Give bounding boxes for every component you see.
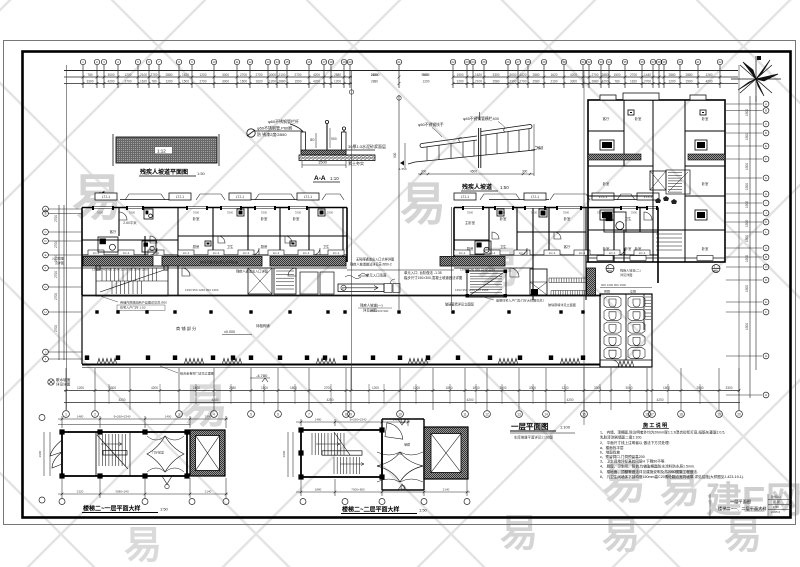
- svg-text:LC-1: LC-1: [489, 251, 496, 255]
- svg-text:C: C: [765, 265, 767, 269]
- svg-text:7000+800: 7000+800: [351, 488, 365, 492]
- svg-text:2.60平米: 2.60平米: [123, 220, 137, 225]
- svg-text:1:50: 1:50: [419, 508, 428, 513]
- svg-text:D: D: [765, 131, 767, 135]
- svg-text:780: 780: [151, 80, 157, 84]
- svg-text:J950: J950: [607, 269, 613, 273]
- svg-text:14100: 14100: [371, 73, 380, 77]
- svg-text:LTJ-1: LTJ-1: [304, 195, 313, 199]
- svg-text:780: 780: [614, 80, 620, 84]
- svg-text:残疾人坡道(一): 残疾人坡道(一): [360, 303, 383, 308]
- balcony front lines: [120, 199, 658, 201]
- svg-text:K: K: [765, 220, 767, 224]
- window marks top wall: [92, 206, 658, 210]
- svg-text:2880: 2880: [278, 80, 285, 84]
- svg-text:3300: 3300: [563, 211, 570, 215]
- slope note: [48, 379, 54, 385]
- svg-text:1880: 1880: [315, 488, 322, 492]
- svg-text:车库坡道平面详见1:100图: 车库坡道平面详见1:100图: [514, 435, 554, 440]
- svg-text:G: G: [44, 285, 46, 289]
- svg-text:按规范要求设置无障碍设施: 按规范要求设置无障碍设施: [200, 260, 239, 265]
- stair detail 2 treads: [312, 432, 364, 474]
- svg-text:男厕: 男厕: [604, 289, 610, 294]
- svg-text:-1.35: -1.35: [396, 452, 403, 456]
- window tick strip: [549, 278, 586, 295]
- svg-text:2900: 2900: [282, 450, 286, 457]
- corridor door fans: [182, 268, 519, 277]
- svg-text:铝合金卷帘门详见立面图: 铝合金卷帘门详见立面图: [180, 371, 214, 376]
- svg-text:24: 24: [471, 60, 475, 64]
- svg-text:1900: 1900: [205, 415, 212, 419]
- toilet entry: [612, 360, 634, 367]
- svg-text:1500: 1500: [745, 235, 749, 242]
- hatched walkway bands: [83, 257, 596, 297]
- svg-text:±0.000: ±0.000: [224, 330, 235, 334]
- svg-text:4200: 4200: [118, 398, 125, 402]
- svg-text:1800: 1800: [290, 386, 297, 390]
- svg-text:33: 33: [599, 60, 603, 64]
- svg-text:1500: 1500: [240, 80, 247, 84]
- svg-text:LC-1: LC-1: [183, 251, 190, 255]
- door arcs: [119, 212, 652, 255]
- svg-text:1:10: 1:10: [330, 176, 339, 181]
- svg-text:LC-1: LC-1: [243, 251, 250, 255]
- svg-text:E: E: [765, 300, 767, 304]
- svg-text:C: C: [765, 122, 767, 126]
- svg-text:2140: 2140: [205, 490, 212, 494]
- svg-text:卧室: 卧室: [635, 246, 642, 251]
- svg-text:φ50不锈钢扶手: φ50不锈钢扶手: [418, 122, 444, 127]
- svg-text:1500: 1500: [456, 73, 463, 77]
- svg-text:3300: 3300: [570, 80, 577, 84]
- svg-text:卧室: 卧室: [635, 116, 642, 121]
- svg-text:1:50: 1:50: [197, 171, 206, 176]
- svg-text:无障碍通道出入口大样详图: 无障碍通道出入口大样详图: [356, 257, 394, 262]
- svg-text:D: D: [44, 239, 46, 243]
- svg-text:6: 6: [277, 412, 279, 416]
- svg-text:1620: 1620: [519, 73, 526, 77]
- svg-text:首层住宅入户门及门厅大样图见苏J: 首层住宅入户门及门厅大样图见苏J: [496, 298, 544, 303]
- corridor lines: [82, 268, 601, 296]
- svg-text:1480: 1480: [77, 415, 84, 419]
- svg-text:1200: 1200: [561, 386, 568, 390]
- svg-text:4200: 4200: [326, 398, 333, 402]
- svg-text:5: 5: [250, 412, 252, 416]
- svg-text:卧室: 卧室: [625, 246, 632, 251]
- svg-text:卧室: 卧室: [702, 246, 709, 251]
- shutter door symbols: [97, 359, 580, 366]
- svg-text:3000: 3000: [269, 73, 276, 77]
- svg-text:4200: 4200: [151, 386, 158, 390]
- svg-text:2700: 2700: [124, 80, 131, 84]
- svg-text:1400: 1400: [165, 415, 172, 419]
- svg-text:F: F: [765, 310, 767, 314]
- interior walls right unit: [454, 208, 658, 301]
- svg-text:1500: 1500: [745, 255, 749, 262]
- middle entrance ramp: [338, 270, 454, 292]
- svg-text:10: 10: [212, 60, 216, 64]
- svg-text:LTJ-1: LTJ-1: [102, 195, 111, 199]
- svg-text:1200: 1200: [413, 386, 420, 390]
- svg-text:3300: 3300: [295, 211, 302, 215]
- svg-text:1500: 1500: [745, 323, 749, 330]
- svg-text:19: 19: [717, 412, 721, 416]
- svg-text:4200: 4200: [466, 398, 473, 402]
- svg-text:-4.780: -4.780: [256, 373, 268, 378]
- svg-text:B: B: [765, 255, 767, 259]
- svg-text:6、 凡卫生间墙体下部均做150mm高C20素砼翻边宽同墙厚: 6、 凡卫生间墙体下部均做150mm高C20素砼翻边宽同墙厚,详见结施(大样图见…: [600, 474, 744, 479]
- svg-text:F: F: [765, 157, 767, 161]
- svg-text:3300: 3300: [129, 211, 136, 215]
- svg-text:残疾人坡道: 残疾人坡道: [462, 183, 492, 191]
- svg-text:G: G: [765, 176, 767, 180]
- svg-text:2880: 2880: [668, 73, 675, 77]
- svg-text:1800: 1800: [445, 386, 452, 390]
- balcony label boxes: [95, 193, 659, 200]
- svg-text:9×260=2340: 9×260=2340: [350, 418, 367, 422]
- svg-text:2700: 2700: [591, 73, 598, 77]
- svg-text:客厅: 客厅: [603, 116, 610, 121]
- svg-text:2700: 2700: [255, 73, 262, 77]
- svg-text:1500: 1500: [745, 220, 749, 227]
- svg-text:踏步尺寸150×300,混凝土坡道做法详图: 踏步尺寸150×300,混凝土坡道做法详图: [404, 275, 463, 280]
- svg-text:3300: 3300: [492, 73, 499, 77]
- svg-text:3080+240: 3080+240: [115, 490, 129, 494]
- svg-text:LC-1: LC-1: [213, 251, 220, 255]
- toilet block: [600, 294, 652, 367]
- svg-text:36: 36: [640, 60, 644, 64]
- main grid line: [64, 70, 738, 72]
- svg-text:1:12: 1:12: [157, 148, 166, 153]
- svg-text:2880: 2880: [601, 73, 608, 77]
- svg-text:3300: 3300: [725, 386, 732, 390]
- svg-text:女厕: 女厕: [630, 289, 636, 294]
- svg-text:900 1200 900 1500: 900 1200 900 1500: [601, 283, 626, 287]
- drawing thick border: [23, 52, 791, 518]
- hall columns row lower (pilasters): [85, 355, 585, 360]
- svg-text:卧室: 卧室: [293, 216, 300, 221]
- svg-text:楼梯二~一、二层平面大样: 楼梯二~一、二层平面大样: [718, 505, 767, 512]
- bottom dimension lines: [64, 391, 740, 403]
- svg-text:1620: 1620: [475, 73, 482, 77]
- svg-text:LC-1: LC-1: [333, 251, 340, 255]
- svg-text:2880: 2880: [334, 73, 341, 77]
- svg-text:建施2-c: 建施2-c: [771, 494, 782, 499]
- svg-text:LC-1: LC-1: [609, 251, 616, 255]
- svg-text:2880: 2880: [532, 73, 539, 77]
- leader notes: [52, 256, 641, 376]
- top dimension numbers: [86, 73, 712, 84]
- svg-text:1500: 1500: [613, 73, 620, 77]
- svg-text:300: 300: [522, 170, 528, 174]
- svg-text:LTJ-1: LTJ-1: [461, 195, 470, 199]
- svg-text:E: E: [45, 253, 47, 257]
- svg-text:900: 900: [393, 152, 397, 158]
- svg-text:H: H: [765, 393, 767, 397]
- svg-text:客厅: 客厅: [110, 229, 117, 234]
- svg-text:客厅: 客厅: [564, 244, 571, 249]
- svg-text:卫生: 卫生: [323, 244, 330, 249]
- svg-text:E: E: [765, 144, 767, 148]
- svg-text:卧室: 卧室: [603, 181, 610, 186]
- svg-text:2700: 2700: [294, 73, 301, 77]
- svg-text:1500: 1500: [745, 285, 749, 292]
- svg-text:F: F: [45, 266, 47, 270]
- svg-text:3: 3: [178, 412, 180, 416]
- wing window line: [588, 257, 725, 259]
- svg-text:1393 950 1260 950 1393: 1393 950 1260 950 1393: [185, 288, 219, 292]
- svg-text:2700: 2700: [324, 386, 331, 390]
- svg-text:φ60不锈钢管栏杆: φ60不锈钢管栏杆: [268, 118, 299, 124]
- svg-text:2580: 2580: [492, 80, 499, 84]
- svg-text:4200: 4200: [705, 80, 712, 84]
- elevation flag left of building: [100, 192, 104, 201]
- title block: [718, 499, 767, 512]
- svg-text:1620: 1620: [630, 80, 637, 84]
- svg-text:4: 4: [213, 412, 215, 416]
- svg-text:16: 16: [307, 60, 311, 64]
- svg-text:2700: 2700: [54, 241, 58, 248]
- toilet stalls: [604, 297, 645, 359]
- svg-text:1200: 1200: [334, 80, 341, 84]
- svg-text:3300: 3300: [631, 211, 638, 215]
- door/fixture blobs: [96, 209, 626, 270]
- svg-text:楼梯二~一层平面大样: 楼梯二~一层平面大样: [83, 505, 141, 513]
- dim lines: [64, 76, 352, 78]
- detail 1 axis bubbles: [59, 499, 65, 505]
- svg-text:1200: 1200: [269, 80, 276, 84]
- svg-text:残疾人坡道平面图: 残疾人坡道平面图: [140, 168, 188, 176]
- svg-text:厨房: 厨房: [467, 246, 474, 251]
- entrance shrubs: [655, 196, 677, 204]
- svg-text:42: 42: [718, 60, 722, 64]
- stair detail 1 bottom dims: [44, 432, 228, 498]
- svg-text:商 铺 部 分: 商 铺 部 分: [176, 325, 197, 332]
- svg-text:2、 平面尺寸线上注明者以 做法下方式处理:: 2、 平面尺寸线上注明者以 做法下方式处理:: [600, 440, 670, 445]
- detail 1 star door: [147, 436, 184, 472]
- svg-text:2140: 2140: [443, 488, 450, 492]
- svg-text:LC-1: LC-1: [639, 251, 646, 255]
- svg-text:卧室: 卧室: [702, 116, 709, 121]
- svg-text:1400: 1400: [400, 488, 407, 492]
- svg-text:卧室: 卧室: [564, 216, 571, 221]
- svg-text:b、地面找坡: b、地面找坡: [600, 450, 620, 455]
- svg-text:卧室: 卧室: [261, 216, 268, 221]
- svg-text:A: A: [765, 246, 767, 250]
- svg-text:残疾人坡道做法详见苏J950-2: 残疾人坡道做法详见苏J950-2: [350, 262, 392, 267]
- svg-text:1200: 1200: [668, 80, 675, 84]
- wing room labels: [603, 116, 709, 251]
- svg-text:28: 28: [526, 60, 530, 64]
- svg-text:300: 300: [421, 170, 427, 174]
- svg-text:12: 12: [485, 412, 489, 416]
- svg-text:厨房: 厨房: [261, 244, 268, 249]
- detail 2 star door: [377, 452, 423, 482]
- svg-text:2900: 2900: [38, 450, 42, 457]
- svg-text:B: B: [765, 109, 767, 113]
- svg-text:2700: 2700: [644, 80, 651, 84]
- svg-text:1500: 1500: [685, 80, 692, 84]
- svg-text:H: H: [44, 310, 46, 314]
- svg-text:c、预留洞口,门洞预留高200: c、预留洞口,门洞预留高200: [600, 454, 645, 459]
- svg-text:14: 14: [544, 412, 548, 416]
- svg-text:2100: 2100: [475, 80, 482, 84]
- svg-text:1:100: 1:100: [560, 425, 571, 430]
- svg-text:15: 15: [582, 412, 586, 416]
- svg-text:20: 20: [348, 60, 352, 64]
- room labels: [110, 216, 632, 251]
- svg-text:12: 12: [248, 60, 252, 64]
- wing outer walls: [588, 100, 725, 262]
- wing interior: [588, 100, 725, 262]
- stair detail 2 box: [301, 430, 382, 477]
- svg-text:1260 2240 950 2240 1260: 1260 2240 950 2240 1260: [460, 268, 495, 272]
- elevator shaft narrow: [530, 269, 547, 295]
- svg-text:C: C: [44, 230, 46, 234]
- svg-text:9: 9: [350, 412, 352, 416]
- svg-text:50: 50: [310, 137, 315, 142]
- svg-text:4200: 4200: [211, 398, 218, 402]
- svg-text:a、楼面找平层: a、楼面找平层: [600, 445, 624, 450]
- detail 2 top door fan: [385, 423, 405, 439]
- svg-text:2100: 2100: [278, 73, 285, 77]
- svg-text:5、 楼地面、顶棚等做法详见建施说明及苏J950图集工程做法: 5、 楼地面、顶棚等做法详见建施说明及苏J950图集工程做法.: [600, 469, 698, 474]
- svg-text:2880: 2880: [685, 73, 692, 77]
- svg-text:2580: 2580: [229, 386, 236, 390]
- svg-text:4500: 4500: [470, 170, 477, 174]
- svg-text:10: 10: [398, 412, 402, 416]
- svg-text:13: 13: [517, 412, 521, 416]
- svg-text:1440: 1440: [644, 73, 651, 77]
- svg-text:1500: 1500: [182, 80, 189, 84]
- svg-text:防 锈漆2度GB50: 防 锈漆2度GB50: [257, 131, 287, 137]
- svg-text:楼梯二~二层平面大样: 楼梯二~二层平面大样: [342, 506, 400, 514]
- svg-text:J950: J950: [713, 269, 719, 273]
- svg-text:13: 13: [266, 60, 270, 64]
- svg-text:LC-1: LC-1: [549, 251, 556, 255]
- svg-text:7: 7: [308, 412, 310, 416]
- svg-text:2580: 2580: [696, 386, 703, 390]
- svg-text:3300: 3300: [327, 211, 334, 215]
- svg-text:2700: 2700: [240, 73, 247, 77]
- wing entrance steps: [656, 234, 682, 250]
- svg-text:1500: 1500: [745, 163, 749, 170]
- svg-text:8: 8: [345, 412, 347, 416]
- svg-text:30: 30: [562, 60, 566, 64]
- svg-text:31: 31: [581, 60, 585, 64]
- balcony rail lines: [125, 194, 635, 200]
- svg-text:3300: 3300: [97, 211, 104, 215]
- svg-text:4200: 4200: [313, 80, 320, 84]
- interior walls left unit: [82, 208, 347, 296]
- service rooms with X: [248, 268, 272, 294]
- elevator shaft 1: [190, 430, 225, 476]
- detail ref circles: [606, 265, 614, 273]
- svg-text:2700: 2700: [519, 80, 526, 84]
- svg-text:2100: 2100: [550, 80, 557, 84]
- svg-text:3000: 3000: [509, 73, 516, 77]
- svg-text:1620: 1620: [255, 80, 262, 84]
- svg-text:1200: 1200: [199, 73, 206, 77]
- svg-text:单元入口雨蓬: 单元入口雨蓬: [366, 273, 387, 278]
- wing stair: [666, 170, 690, 194]
- svg-text:18: 18: [329, 60, 333, 64]
- svg-text:3300: 3300: [594, 386, 601, 390]
- svg-text:3300: 3300: [529, 386, 536, 390]
- svg-text:9×260=2340: 9×260=2340: [114, 415, 131, 419]
- svg-text:1393 950 1260 950 1393: 1393 950 1260 950 1393: [455, 288, 489, 292]
- svg-text:3300: 3300: [109, 386, 116, 390]
- svg-text:住宅入户门厅 1:50: 住宅入户门厅 1:50: [120, 305, 146, 310]
- svg-text:2: 2: [94, 412, 96, 416]
- svg-text:3300: 3300: [261, 211, 268, 215]
- stair detail 1 treads: [96, 432, 130, 476]
- svg-text:37: 37: [651, 60, 655, 64]
- svg-text:LC-1: LC-1: [579, 251, 586, 255]
- stairwell right: [467, 271, 506, 297]
- svg-text:3300: 3300: [467, 211, 474, 215]
- svg-text:详见详图: 详见详图: [620, 272, 632, 277]
- svg-text:2700: 2700: [199, 80, 206, 84]
- svg-text:LTJ-1: LTJ-1: [176, 195, 185, 199]
- svg-text:1:50: 1:50: [160, 507, 169, 512]
- elevation mark: [250, 378, 270, 382]
- detail 2 corridor column: [382, 419, 424, 490]
- svg-text:30厚1:3水泥砂浆面层: 30厚1:3水泥砂浆面层: [348, 143, 386, 149]
- svg-text:32: 32: [587, 60, 591, 64]
- svg-text:2005.6: 2005.6: [771, 510, 781, 514]
- svg-text:一层平面图: 一层平面图: [511, 422, 549, 431]
- svg-text:3000: 3000: [625, 386, 632, 390]
- svg-text:2880: 2880: [165, 73, 172, 77]
- svg-text:乳胶漆涂刷墙面二度1:100.: 乳胶漆涂刷墙面二度1:100.: [600, 435, 642, 440]
- svg-text:20: 20: [737, 412, 741, 416]
- svg-text:卧室: 卧室: [193, 216, 200, 221]
- svg-text:4200: 4200: [656, 398, 663, 402]
- svg-text:38: 38: [657, 60, 661, 64]
- svg-text:11: 11: [235, 60, 238, 64]
- svg-text:易: 易: [724, 515, 762, 557]
- svg-text:玻璃幕墙详见立面图: 玻璃幕墙详见立面图: [548, 302, 576, 307]
- svg-text:17: 17: [322, 60, 326, 64]
- svg-text:19: 19: [342, 60, 346, 64]
- svg-text:φ50不锈钢管,P60刷: φ50不锈钢管,P60刷: [257, 125, 292, 131]
- svg-text:门厅前室: 门厅前室: [152, 450, 164, 455]
- svg-text:1500: 1500: [745, 133, 749, 140]
- svg-text:1500: 1500: [261, 386, 268, 390]
- svg-text:1200: 1200: [422, 80, 429, 84]
- svg-text:1:50: 1:50: [773, 505, 779, 509]
- svg-text:-1.350: -1.350: [398, 167, 407, 171]
- svg-text:14: 14: [275, 60, 279, 64]
- svg-text:2700: 2700: [54, 325, 58, 332]
- svg-text:3300: 3300: [227, 211, 234, 215]
- svg-text:G: G: [765, 354, 767, 358]
- stair detail 2 top dims: [296, 419, 410, 426]
- svg-text:35: 35: [623, 60, 627, 64]
- svg-text:易: 易: [400, 178, 446, 230]
- svg-text:1、 内墙、顶棚面,除注明者外均为20mm厚1:1:6混合砂: 1、 内墙、顶棚面,除注明者外均为20mm厚1:1:6混合砂浆打底,纸筋灰罩面1…: [600, 430, 725, 435]
- svg-text:29: 29: [542, 60, 546, 64]
- wing window labels: [597, 256, 713, 261]
- svg-text:17: 17: [650, 412, 654, 416]
- svg-text:1500: 1500: [318, 160, 328, 165]
- svg-text:1500: 1500: [745, 183, 749, 190]
- svg-text:3000: 3000: [499, 386, 506, 390]
- svg-text:4200: 4200: [313, 73, 320, 77]
- svg-text:H: H: [765, 192, 767, 196]
- svg-text:27: 27: [516, 60, 520, 64]
